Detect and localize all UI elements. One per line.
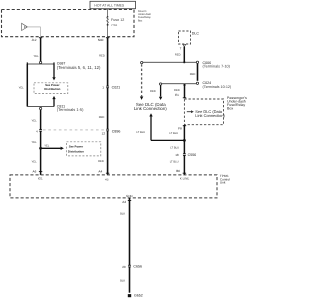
svg-text:RED: RED	[175, 54, 181, 57]
svg-text:RED: RED	[174, 89, 180, 92]
svg-text:E1: E1	[175, 93, 179, 97]
svg-text:RED: RED	[98, 160, 104, 163]
svg-text:(Terminals 7-10): (Terminals 7-10)	[203, 65, 231, 69]
svg-text:Link Connection): Link Connection)	[195, 113, 225, 118]
svg-text:A3: A3	[122, 200, 126, 204]
Passenger's Under-dash Fuse/Relay Box	[184, 96, 247, 125]
fuse F12 wire	[107, 9, 109, 37]
up arrow LT BLU to See DLC	[136, 113, 152, 140]
svg-text:Unit: Unit	[220, 181, 226, 185]
See Power Distribution box 1	[34, 83, 68, 94]
svg-text:Box: Box	[227, 106, 233, 110]
svg-text:C656: C656	[133, 265, 142, 269]
svg-text:YEL: YEL	[34, 55, 40, 58]
svg-text:RED: RED	[99, 55, 105, 58]
pin J12	[32, 38, 43, 42]
svg-text:Fuse 12: Fuse 12	[111, 18, 124, 22]
svg-text:RED: RED	[150, 90, 156, 93]
svg-text:BLK: BLK	[120, 213, 125, 216]
svg-text:Distribution: Distribution	[44, 87, 60, 91]
pin N40	[98, 38, 110, 42]
svg-text:C021: C021	[112, 86, 121, 90]
svg-text:YEL: YEL	[44, 144, 50, 147]
svg-text:C896: C896	[112, 129, 121, 133]
See DLC reference text (middle)	[134, 102, 167, 111]
svg-text:B6: B6	[176, 169, 180, 173]
svg-text:(Terminals 5, 6, 11, 12): (Terminals 5, 6, 11, 12)	[57, 65, 101, 70]
svg-text:LT BLU: LT BLU	[169, 132, 178, 135]
svg-text:A6: A6	[33, 170, 37, 174]
wire to E1	[174, 84, 186, 98]
svg-text:G652: G652	[134, 293, 143, 297]
svg-text:Box: Box	[138, 19, 143, 22]
svg-text:RED: RED	[190, 73, 196, 76]
C006 connector line	[141, 61, 231, 69]
svg-text:YEL: YEL	[32, 120, 38, 123]
wire YEL from J12 to bus	[40, 38, 42, 62]
connector circle on bus1	[39, 61, 41, 63]
svg-text:F8: F8	[178, 126, 182, 130]
svg-text:See Power: See Power	[69, 144, 84, 148]
svg-text:(Terminals 1-5): (Terminals 1-5)	[57, 107, 84, 112]
svg-text:Link Connection): Link Connection)	[134, 106, 167, 111]
DLC box	[179, 31, 200, 44]
pin A4 at TPMS	[98, 169, 109, 175]
svg-text:7.5A: 7.5A	[111, 23, 117, 27]
svg-text:N40: N40	[98, 38, 104, 42]
arrow from C811	[52, 96, 55, 107]
svg-text:GND: GND	[126, 194, 134, 198]
svg-text:YEL: YEL	[32, 160, 38, 163]
svg-text:A4: A4	[98, 169, 102, 173]
svg-text:RED: RED	[99, 116, 105, 119]
ground G652	[128, 293, 143, 297]
svg-text:1: 1	[102, 86, 104, 90]
svg-text:(Terminals 10-12): (Terminals 10-12)	[203, 85, 232, 89]
svg-text:Distribution: Distribution	[68, 150, 84, 154]
pin F8 wire LT BLU	[169, 125, 186, 173]
dashed arrow from C006 to See DLC	[140, 64, 143, 100]
C024 connector line	[159, 81, 231, 89]
connector C656 terminal 20	[122, 265, 142, 269]
svg-text:+B: +B	[105, 178, 109, 182]
connector C896 terminal 4	[36, 129, 43, 134]
svg-text:12: 12	[102, 132, 106, 136]
svg-text:LT BLU: LT BLU	[136, 131, 145, 134]
svg-text:7: 7	[180, 47, 182, 51]
svg-text:BLK: BLK	[120, 280, 125, 283]
svg-text:YEL: YEL	[19, 86, 25, 89]
wire RED from DLC	[183, 47, 185, 62]
connector C556 terminal 18	[175, 153, 196, 157]
connector C896 terminal 12	[102, 128, 121, 135]
svg-text:K LINE: K LINE	[180, 177, 190, 181]
diode symbol inside driver's box	[22, 23, 28, 30]
connector circle below bus2	[39, 107, 41, 109]
YEL branch arrow to See Power Distribution	[41, 144, 64, 150]
svg-text:LT BLU: LT BLU	[170, 161, 179, 164]
junction dot on C006 line	[183, 61, 185, 63]
HOT AT ALL TIMES box	[90, 1, 136, 8]
Driver's Under-dash Fuse/Relay Box (dashed)	[2, 10, 152, 37]
pin A3 ground wire BLK	[120, 198, 131, 293]
svg-text:DLC: DLC	[192, 32, 200, 36]
svg-text:J12: J12	[32, 38, 37, 42]
svg-text:C556: C556	[188, 153, 197, 157]
bus bar 1	[27, 63, 54, 65]
arrow to C687	[52, 64, 55, 80]
dashed link to C896	[43, 129, 105, 131]
left branch wire	[26, 64, 28, 107]
pin B6 at TPMS	[176, 169, 186, 175]
svg-text:YEL: YEL	[32, 141, 38, 144]
pin A6 at TPMS	[33, 170, 43, 175]
RED arrow from C024 to See DLC	[150, 85, 162, 100]
junction node	[39, 147, 42, 150]
svg-text:IG1: IG1	[38, 176, 43, 180]
connector C021	[102, 85, 120, 89]
bus bar 2	[27, 106, 54, 108]
TPMS Control Unit box	[10, 174, 230, 198]
svg-text:LT BLU: LT BLU	[170, 147, 179, 150]
DLC terminal	[183, 44, 186, 46]
main RED wire from N40	[107, 38, 109, 174]
RED link wire between C006 and C024	[197, 64, 199, 81]
svg-text:18: 18	[175, 153, 179, 157]
wire from diode to J12	[27, 27, 40, 37]
L branch to up arrow	[151, 139, 186, 142]
See Power Distribution box 2	[67, 142, 101, 156]
svg-text:20: 20	[122, 265, 126, 269]
wire YEL down from bus2	[40, 110, 42, 172]
svg-text:HOT AT ALL TIMES: HOT AT ALL TIMES	[94, 4, 125, 8]
